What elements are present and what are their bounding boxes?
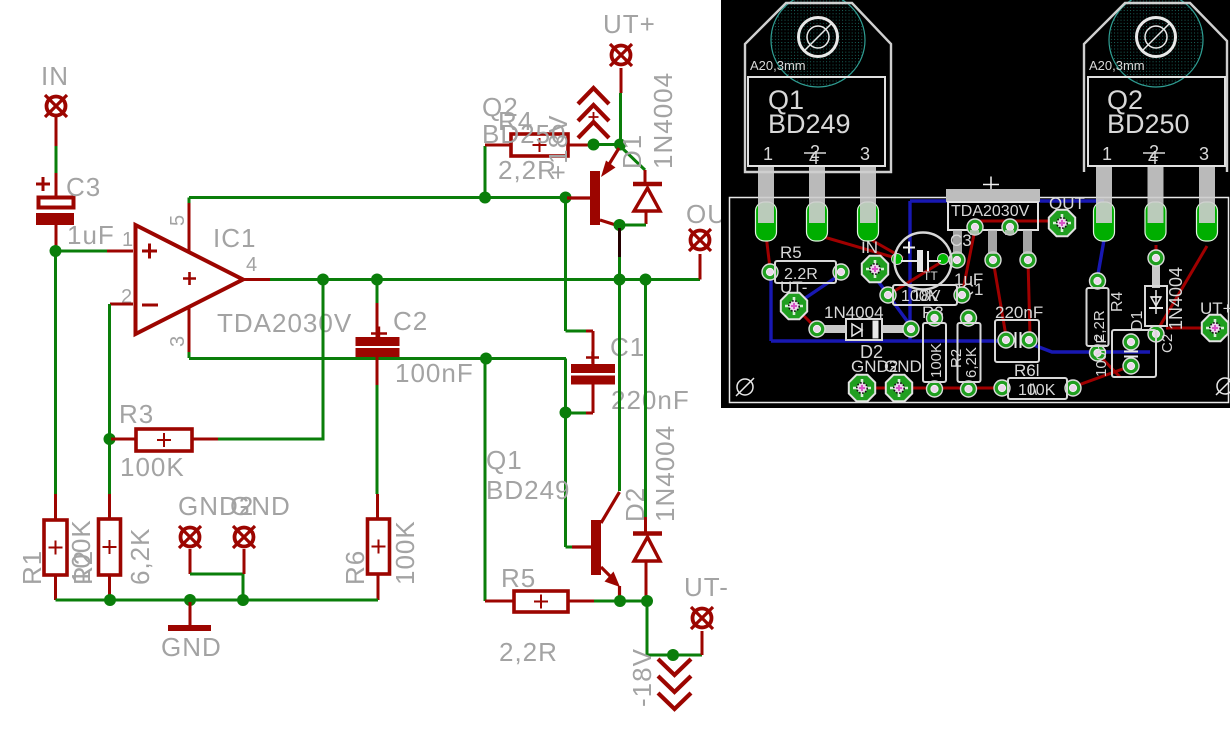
wire op-amp pin5 up bbox=[188, 198, 191, 253]
D1 body (pcb) bbox=[1145, 286, 1167, 326]
R4 pad top bbox=[1090, 273, 1106, 289]
node junction R2 bottom bbox=[104, 594, 116, 606]
wire C2 bottom to R6 bbox=[376, 385, 380, 519]
svg-text:D2: D2 bbox=[620, 487, 650, 522]
wire C3 to op-amp pin1 bbox=[56, 250, 134, 253]
D2 lead right bbox=[881, 325, 907, 333]
svg-text:100K: 100K bbox=[390, 520, 420, 585]
R4 pad bottom bbox=[1090, 345, 1106, 361]
C3 plus mark bbox=[903, 242, 915, 254]
svg-text:BD249: BD249 bbox=[486, 475, 571, 505]
svg-text:TT: TT bbox=[923, 269, 938, 283]
wire red R6 to C2 bbox=[1073, 366, 1131, 387]
IC1 pad upper a bbox=[967, 219, 983, 235]
C2 body (pcb) bbox=[1112, 330, 1156, 377]
svg-text:1N4004: 1N4004 bbox=[824, 303, 884, 322]
IC1 lead stubs bbox=[953, 230, 1032, 254]
wire blue R5 left riser bbox=[769, 272, 772, 341]
supply symbol -18V arrow bbox=[658, 659, 691, 709]
wire red C2 area to UT+ bbox=[1166, 327, 1202, 330]
transistor Q2 pad 1 bbox=[1094, 202, 1115, 241]
op-amp IC1 triangle bbox=[136, 225, 244, 334]
wire op-amp pin3 down bbox=[188, 306, 191, 358]
svg-text:UT+: UT+ bbox=[1200, 299, 1230, 318]
R5 pad left bbox=[762, 264, 778, 280]
diode D2 bbox=[633, 517, 662, 598]
node junction R3 left bbox=[104, 433, 116, 445]
svg-text:1: 1 bbox=[1102, 144, 1112, 164]
pad OUT bbox=[689, 229, 711, 251]
wire out rail down to D2 bbox=[644, 281, 647, 517]
wire down to UT- rail bbox=[647, 603, 702, 655]
svg-text:GND: GND bbox=[230, 491, 291, 521]
C220 pad left bbox=[998, 332, 1014, 348]
C2 pad bottom (pcb) bbox=[1123, 358, 1139, 374]
IC1 body bbox=[948, 202, 1038, 230]
wire out rail bbox=[242, 278, 700, 281]
node junction Q1 emitter bbox=[614, 595, 626, 607]
svg-text:R1: R1 bbox=[17, 550, 47, 585]
capacitor C3 bbox=[36, 177, 74, 248]
transistor Q2 pad 2 bbox=[1145, 202, 1166, 241]
wire C3 down to R1 bbox=[54, 251, 57, 520]
R3h body bbox=[893, 285, 957, 305]
pad IN bbox=[45, 95, 67, 117]
wire red Q1 pad1 to R5 bbox=[766, 235, 770, 268]
svg-text:4: 4 bbox=[1148, 148, 1158, 168]
D2 pad left bbox=[809, 321, 825, 337]
wire D1 anode to collector node bbox=[621, 224, 646, 227]
R5 body (pcb) bbox=[775, 261, 836, 283]
R4 body (pcb) bbox=[1087, 288, 1109, 346]
transistor Q2 outline bbox=[1084, 3, 1227, 172]
svg-text:TDA2030V: TDA2030V bbox=[217, 308, 352, 338]
transistor Q1 hole bbox=[799, 18, 838, 57]
pcb background bbox=[721, 0, 1230, 408]
wire UT+ pad down bbox=[619, 68, 623, 143]
transistor Q2 pad 3 bbox=[1197, 202, 1218, 241]
label 100K inside R6 bbox=[1018, 382, 1056, 399]
wire R4 to UT+ column bbox=[594, 143, 620, 146]
supply symbol +18V arrow bbox=[578, 88, 609, 138]
wire R5 to emitter node bbox=[594, 600, 619, 603]
svg-text:220nF: 220nF bbox=[995, 303, 1043, 322]
IC1 pad lower 5 bbox=[1020, 252, 1036, 268]
transistor Q1 lead 2 bbox=[809, 166, 825, 223]
transistor Q1 lead 1 bbox=[758, 166, 774, 223]
svg-text:Q1: Q1 bbox=[486, 445, 523, 475]
C220 pad right bbox=[1021, 332, 1037, 348]
wire red IC pin to 220nF left bbox=[993, 260, 1006, 336]
svg-text:R5: R5 bbox=[501, 563, 536, 593]
resistor R6 bbox=[368, 519, 390, 600]
svg-text:IN: IN bbox=[861, 238, 878, 257]
svg-text:2,2R: 2,2R bbox=[499, 637, 558, 667]
wire red 100K left to C3 right bbox=[888, 261, 943, 295]
pad UT+ bbox=[610, 44, 632, 66]
svg-text:D1: D1 bbox=[1129, 310, 1146, 331]
node junction UT+ column bbox=[614, 139, 626, 151]
transistor Q1 keepout circle bbox=[771, 0, 865, 87]
wire UT+ node diagonal to D1 bbox=[620, 146, 645, 170]
svg-text:A20,3mm: A20,3mm bbox=[1089, 58, 1145, 73]
pad IN (pcb) bbox=[862, 256, 888, 282]
svg-text:3: 3 bbox=[860, 144, 870, 164]
svg-text:D1: D1 bbox=[617, 134, 647, 169]
svg-text:C3: C3 bbox=[950, 231, 972, 250]
pad GND3 bbox=[233, 526, 255, 548]
wire red 100K right to IC pin bbox=[962, 229, 975, 295]
IC1 pad lower 3 bbox=[985, 252, 1001, 268]
D2 pad right bbox=[903, 321, 919, 337]
svg-text:UT-: UT- bbox=[684, 572, 729, 602]
resistor R4 bbox=[485, 134, 592, 196]
node junction -18V stem bbox=[667, 649, 679, 661]
pad UT- bbox=[691, 607, 713, 629]
C220 symbol bbox=[1016, 332, 1021, 348]
wire GND pads down bbox=[190, 549, 244, 600]
svg-text:-18V: -18V bbox=[627, 648, 657, 707]
transistor Q1 pad 3 bbox=[858, 202, 879, 241]
pad GND b (pcb) bbox=[886, 375, 912, 401]
pad UT- (pcb) bbox=[781, 293, 807, 319]
svg-text:100nF: 100nF bbox=[1093, 334, 1110, 377]
D1 pad bottom (pcb) bbox=[1148, 326, 1164, 342]
svg-text:l\: l\ bbox=[1029, 382, 1038, 399]
resistor R2 bbox=[99, 519, 121, 600]
svg-text:3: 3 bbox=[1199, 144, 1209, 164]
R6 pad right bbox=[1065, 380, 1081, 396]
C3 pad left bbox=[892, 254, 903, 265]
svg-text:C2: C2 bbox=[1159, 334, 1176, 353]
svg-text:100nF: 100nF bbox=[395, 358, 474, 388]
svg-text:IN: IN bbox=[41, 61, 69, 91]
svg-text:100K: 100K bbox=[928, 343, 945, 378]
svg-text:1N4004: 1N4004 bbox=[1166, 267, 1186, 330]
R6 pad left bbox=[994, 380, 1010, 396]
svg-text:220nF: 220nF bbox=[611, 385, 690, 415]
D1 lead bottom bbox=[1152, 326, 1160, 336]
node junction Q1 collector bbox=[614, 274, 626, 286]
transistor Q2 lead 2 bbox=[1148, 166, 1164, 223]
wire blue out net vertical bbox=[908, 201, 911, 341]
wire out rail down to Q1 collector bbox=[618, 281, 621, 491]
wire red R4 bottom diagonal bbox=[1097, 353, 1120, 377]
IC1 pad upper b bbox=[1002, 219, 1018, 235]
wire blue Q2 pad1 to R4 bbox=[1097, 240, 1104, 280]
wire UT- pad stem bbox=[701, 631, 704, 655]
Rv2 pad top bbox=[961, 310, 977, 326]
IC1 origin cross bbox=[983, 177, 999, 193]
label 100K inside (overlapped) bbox=[901, 288, 941, 305]
svg-text:GND: GND bbox=[884, 357, 922, 376]
svg-text:100K: 100K bbox=[120, 452, 185, 482]
transistor Q1 body bbox=[748, 77, 885, 166]
svg-text:IC1: IC1 bbox=[213, 223, 256, 253]
IC1 pad lower 1 bbox=[949, 252, 965, 268]
svg-text:R6: R6 bbox=[340, 550, 370, 585]
board outline bbox=[730, 198, 1229, 403]
Rv1 pad top bbox=[927, 310, 943, 326]
svg-text:UT+: UT+ bbox=[603, 9, 656, 39]
R6 body (pcb) bbox=[1008, 378, 1067, 399]
node junction C1 bottom bbox=[560, 407, 572, 419]
node junction C2 top bbox=[371, 274, 383, 286]
wire red C3 to IC pin1 bbox=[943, 258, 957, 261]
node junction feedback bbox=[317, 274, 329, 286]
node junction D2 anode bbox=[641, 595, 653, 607]
IC1 tab bbox=[946, 189, 1040, 202]
svg-text:R3: R3 bbox=[119, 399, 154, 429]
C3 pad right bbox=[938, 254, 949, 265]
ground symbol GND bbox=[168, 602, 211, 628]
Rv2 pad bottom bbox=[961, 381, 977, 397]
wire pin3 rail bbox=[189, 357, 566, 360]
C220 body bbox=[995, 320, 1039, 362]
wire red Q1 pad3 to C3 plus bbox=[868, 238, 903, 258]
wire red IC out to OUT pad bbox=[975, 221, 1062, 227]
svg-text:GND: GND bbox=[161, 632, 222, 662]
node junction R5 stem bbox=[480, 353, 492, 365]
capacitor C1 bbox=[571, 352, 615, 385]
wire red ground rail bbox=[862, 387, 1001, 390]
resistor R3 bbox=[111, 429, 218, 451]
wire Q2 base net down to C1 top bbox=[566, 199, 594, 364]
R5 pad right bbox=[833, 264, 849, 280]
C3 cap symbol bbox=[901, 250, 941, 272]
svg-text:5: 5 bbox=[167, 215, 189, 226]
transistor Q2 lead 3 bbox=[1199, 166, 1215, 223]
wire blue R5 right to UT- bbox=[795, 274, 841, 305]
wire Q2 collector down to out rail bbox=[618, 228, 621, 279]
svg-text:BD250: BD250 bbox=[1107, 109, 1190, 139]
wire pin3 rail corner down to C1 bottom bbox=[564, 359, 567, 412]
C3 circle outline bbox=[895, 233, 952, 290]
transistor Q2 hole bbox=[1137, 18, 1176, 57]
wire OUT pad stem bbox=[699, 254, 702, 280]
svg-text:6,2K: 6,2K bbox=[963, 347, 980, 378]
fiducial bottom-right bbox=[1216, 377, 1230, 395]
pad GND a (pcb) bbox=[849, 375, 875, 401]
svg-text:6,2K: 6,2K bbox=[125, 528, 155, 586]
transistor Q1 outline bbox=[745, 3, 891, 172]
transistor Q2 keepout circle bbox=[1109, 0, 1203, 87]
resistor R1 bbox=[44, 520, 67, 600]
node junction GND2 pad bbox=[237, 594, 249, 606]
transistor Q1 pad 1 bbox=[756, 202, 777, 241]
node junction supply stem bbox=[588, 139, 600, 151]
Rv1 body bbox=[923, 323, 946, 382]
wire junction down to R2 bbox=[108, 441, 111, 519]
pin label 2/4 overlapped bbox=[804, 142, 826, 168]
wire red Q1 pad2 to C3 bbox=[817, 235, 896, 258]
svg-text:1uF: 1uF bbox=[67, 220, 115, 250]
wire R3 right to output column bbox=[218, 280, 323, 441]
transistor Q2 lead 1 bbox=[1096, 166, 1112, 223]
svg-text:TDA2030V: TDA2030V bbox=[951, 203, 1030, 220]
svg-text:C2: C2 bbox=[393, 306, 428, 336]
wire pin5 rail to Q2 base bbox=[189, 196, 565, 199]
wire red Q2 pad2 to D1 bbox=[1155, 245, 1158, 257]
svg-text:C1: C1 bbox=[610, 332, 645, 362]
svg-text:3: 3 bbox=[167, 336, 189, 347]
R3h pad left bbox=[880, 287, 896, 303]
transistor Q1 bbox=[572, 492, 620, 599]
capacitor C2 bbox=[356, 281, 400, 385]
transistor Q2 bbox=[567, 148, 619, 226]
wire blue 220nF to C2 bbox=[1031, 344, 1150, 352]
D2 symbol bbox=[852, 321, 878, 338]
svg-text:1N4004: 1N4004 bbox=[650, 425, 680, 522]
D1 lead top bbox=[1152, 262, 1160, 288]
wire blue IN pad to D2 bbox=[875, 277, 910, 325]
C2 symbol (pcb) bbox=[1124, 352, 1138, 357]
D2 lead left bbox=[823, 325, 847, 333]
wire IN pad to C3 bbox=[55, 117, 58, 196]
node junction R4 stem bbox=[479, 192, 491, 204]
svg-text:OUT: OUT bbox=[1049, 194, 1085, 213]
node junction D2 cathode column bbox=[640, 274, 652, 286]
wire ground rail bbox=[56, 599, 379, 602]
wire blue bottom rail bbox=[771, 339, 1003, 342]
pad GND2 bbox=[179, 526, 201, 548]
wire C1 bottom link bbox=[566, 384, 594, 413]
pin label 2/4 overlapped (Q2) bbox=[1143, 142, 1165, 168]
svg-text:C3: C3 bbox=[66, 172, 101, 202]
wire op-amp pin2 feedback bbox=[110, 304, 134, 437]
fiducial bottom-left bbox=[736, 378, 754, 396]
svg-text:4: 4 bbox=[809, 148, 819, 168]
transistor Q2 body bbox=[1088, 77, 1225, 166]
wire down to Q1 base bbox=[566, 414, 592, 547]
svg-text:1: 1 bbox=[122, 229, 133, 251]
Rv1 pad bottom bbox=[927, 381, 943, 397]
C2 pad top (pcb) bbox=[1123, 334, 1139, 350]
node junction Q2 collector bbox=[614, 219, 626, 231]
D1 symbol (pcb) bbox=[1149, 290, 1163, 314]
wire red Q2 pad3 to C2 top bbox=[1157, 246, 1207, 331]
svg-text:R6l: R6l bbox=[1014, 361, 1040, 380]
D1 pad top (pcb) bbox=[1148, 250, 1164, 266]
node junction Q2 base bbox=[560, 192, 572, 204]
pad OUT (pcb) bbox=[1049, 210, 1075, 236]
svg-text:R5: R5 bbox=[780, 243, 802, 262]
node junction at C3 out bbox=[50, 245, 62, 257]
wire red UT- to D2 bbox=[794, 306, 817, 329]
wire red IC pin to 220nF right bbox=[1028, 260, 1030, 336]
transistor Q1 lead 3 bbox=[860, 166, 876, 223]
svg-text:BD249: BD249 bbox=[768, 109, 851, 139]
transistor Q1 pad 2 bbox=[807, 202, 828, 241]
svg-text:R2: R2 bbox=[68, 550, 98, 585]
Rv2 body bbox=[958, 323, 981, 382]
D2 body (pcb) bbox=[846, 319, 882, 340]
diode D1 bbox=[633, 170, 662, 224]
pad UT+ (pcb) bbox=[1202, 315, 1228, 341]
resistor R5 bbox=[485, 360, 594, 612]
R3h pad right bbox=[954, 287, 970, 303]
node junction GND symbol bbox=[184, 594, 196, 606]
svg-text:1: 1 bbox=[763, 144, 773, 164]
svg-text:A20,3mm: A20,3mm bbox=[750, 58, 806, 73]
wire blue top rail bbox=[910, 199, 1104, 202]
wire emitter node to D2 node bbox=[621, 600, 646, 603]
svg-text:+18V: +18V bbox=[543, 115, 573, 180]
svg-text:R4: R4 bbox=[1109, 291, 1126, 312]
svg-text:1N4004: 1N4004 bbox=[648, 72, 678, 169]
svg-text:4: 4 bbox=[246, 254, 257, 276]
